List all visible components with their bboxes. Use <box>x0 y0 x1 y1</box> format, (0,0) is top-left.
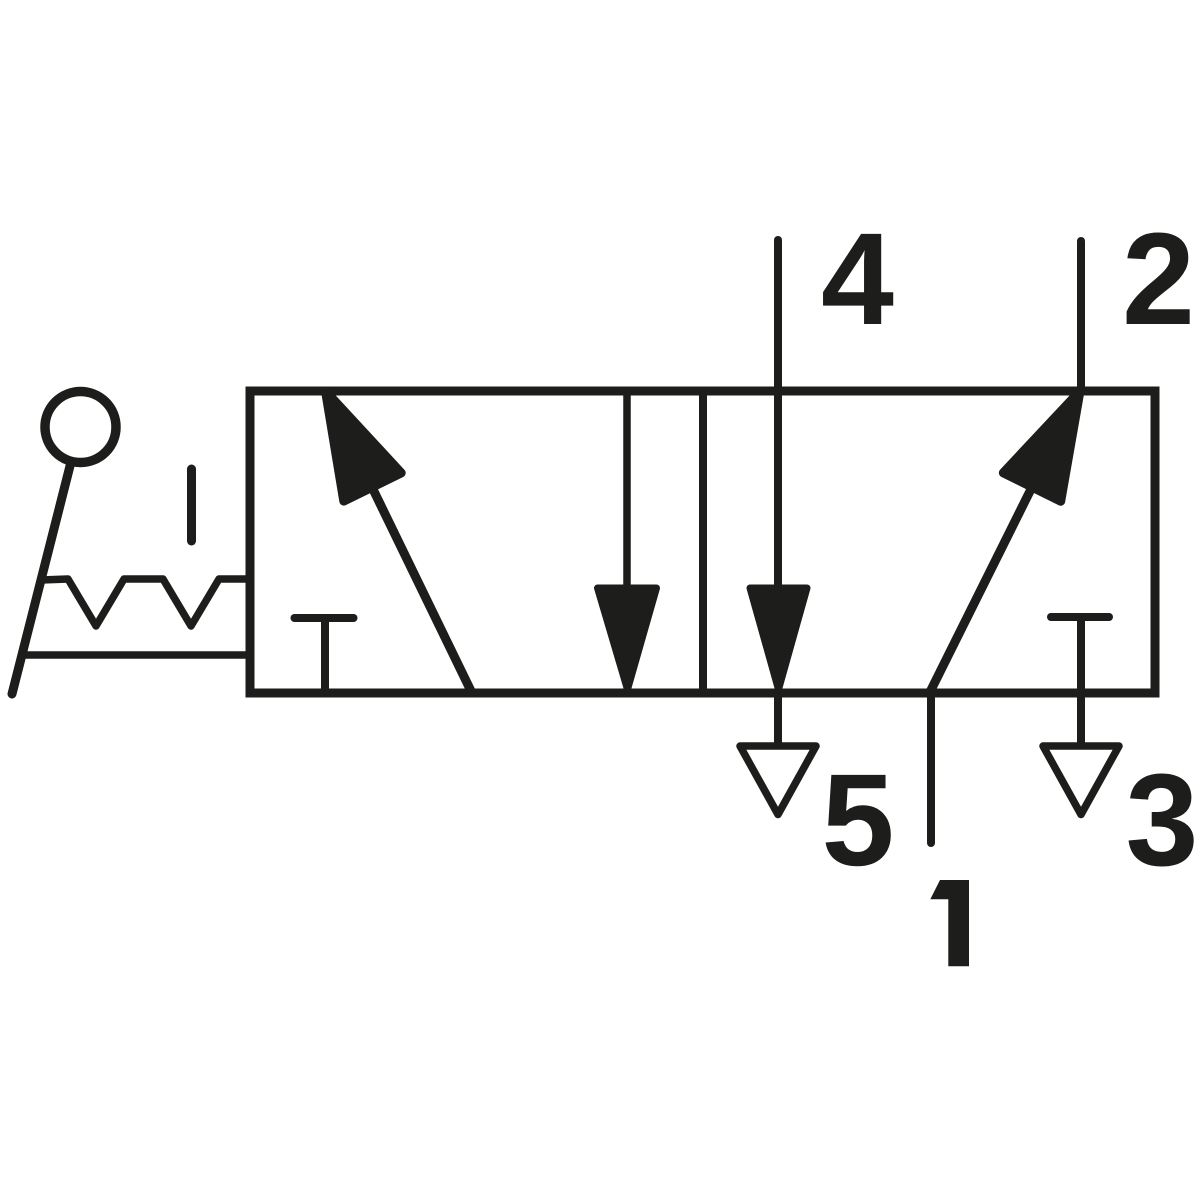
port label 1 <box>930 880 969 966</box>
svg-text:5: 5 <box>822 746 895 893</box>
port 4 line <box>774 240 782 600</box>
exhaust triangle port 5 <box>740 746 816 815</box>
blocked port symbol (left position) <box>295 618 354 691</box>
svg-text:3: 3 <box>1126 746 1199 893</box>
flow arrowhead (left position) <box>326 391 402 501</box>
detent mark <box>187 469 196 541</box>
port label 4 <box>821 205 894 352</box>
spring zigzag <box>41 579 252 626</box>
position divider <box>699 391 707 693</box>
exhaust triangle port 3 <box>1043 746 1119 815</box>
flow arrow shaft (left position, up-left) <box>352 446 471 691</box>
lever base line <box>22 651 252 659</box>
svg-text:2: 2 <box>1122 205 1195 352</box>
port label 5 <box>822 746 895 893</box>
port label 2 <box>1122 205 1195 352</box>
flow arrow shaft (right position, 1 to 2) <box>930 465 1043 692</box>
port 4 down arrowhead <box>750 588 807 690</box>
lever arm <box>12 462 71 694</box>
blocked port symbol (right, port 3) <box>1051 617 1109 744</box>
port 2 line <box>1077 241 1085 391</box>
down arrow stem (left position) <box>623 391 631 600</box>
port 5 stem <box>774 693 782 744</box>
svg-text:4: 4 <box>821 205 894 352</box>
port label 3 <box>1126 746 1199 893</box>
roller circle of lever actuator <box>45 392 116 463</box>
port 1 stem <box>927 693 935 843</box>
flow arrowhead (right position) <box>1003 391 1080 501</box>
valve body outline <box>250 391 1155 693</box>
down arrowhead (left position) <box>598 588 657 690</box>
